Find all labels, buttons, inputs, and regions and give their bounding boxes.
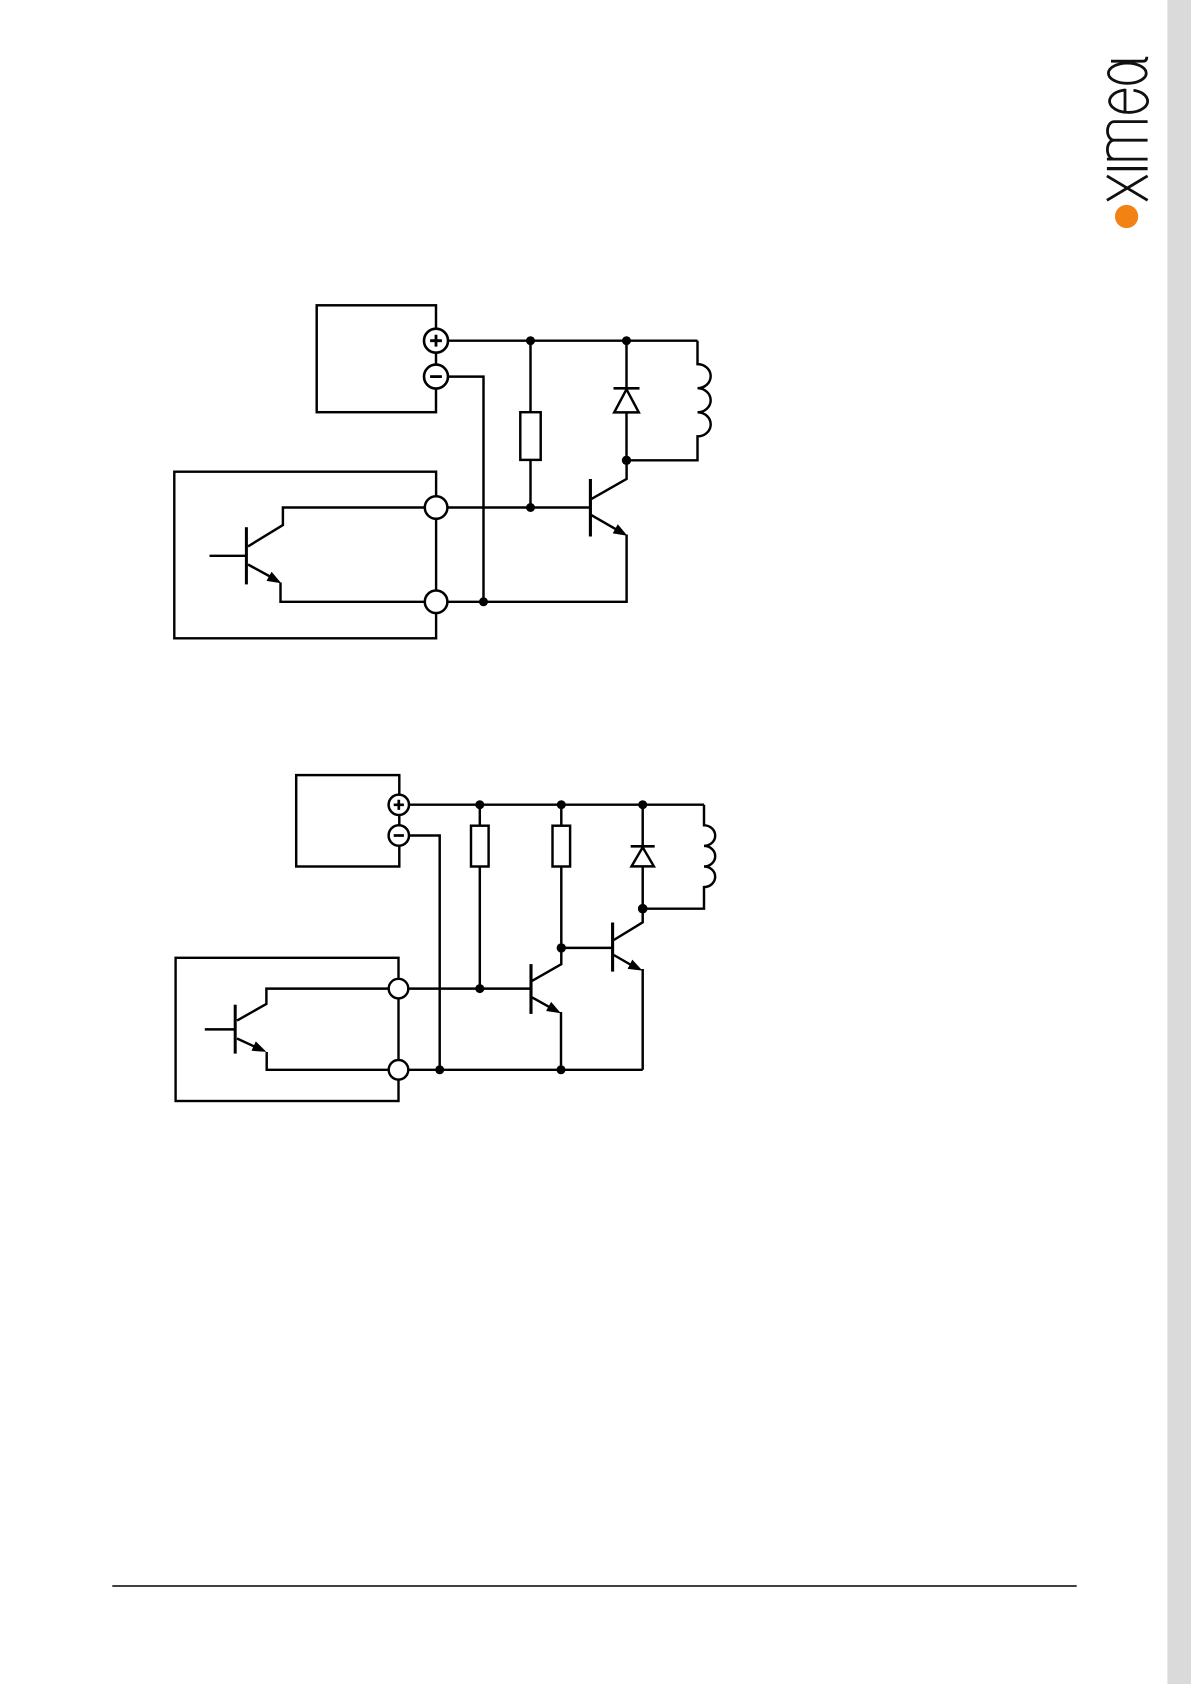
inductor L2 relay coil	[643, 805, 716, 909]
node D junction	[622, 456, 631, 465]
resistor R3	[553, 826, 571, 867]
footer rule	[112, 1585, 1076, 1587]
diode D1	[614, 341, 640, 461]
opto-isolator box U2	[176, 958, 399, 1101]
node L junction	[435, 1065, 444, 1074]
node J junction	[557, 943, 566, 952]
wire base rail Q2	[409, 987, 531, 989]
phototransistor U2	[205, 989, 388, 1070]
inductor L1 relay coil	[627, 341, 711, 461]
wire minus to ground rail	[409, 836, 440, 1070]
resistor R1	[520, 412, 540, 460]
transistor Q3	[613, 909, 643, 972]
node K junction	[638, 904, 648, 914]
wire top rail +V	[409, 803, 704, 805]
terminal - PS1	[424, 365, 448, 389]
wire emitter Q1 to ground rail	[447, 535, 626, 602]
wire to resistor R3	[560, 805, 562, 826]
wire minus to ground rail	[448, 377, 484, 602]
right margin bar	[1167, 0, 1191, 1684]
wire to resistor R2	[479, 805, 481, 826]
terminal + PS1	[424, 329, 448, 353]
terminal + PS2	[389, 795, 409, 815]
terminal pin 2 U2	[389, 1060, 409, 1080]
opto-isolator box U1	[174, 472, 436, 639]
ximea logo	[1107, 57, 1148, 228]
transistor Q2	[531, 948, 561, 1014]
terminal pin 2 U1	[425, 591, 448, 614]
terminal - PS2	[389, 825, 409, 845]
node A junction	[526, 336, 535, 345]
wire emitter Q2 to ground rail	[560, 1012, 562, 1070]
wire resistor R2 to base rail	[479, 867, 481, 989]
resistor R2	[471, 826, 489, 867]
wire to resistor R1	[529, 341, 531, 413]
wire base rail	[447, 506, 590, 508]
wire top rail +V	[448, 339, 698, 341]
node G junction	[475, 984, 484, 993]
terminal pin 1 U1	[425, 496, 448, 519]
node M junction	[557, 1065, 566, 1074]
node I junction	[638, 800, 647, 809]
node B junction	[526, 503, 535, 512]
node F junction	[475, 800, 484, 809]
wire node J to base Q3	[561, 947, 612, 949]
node C junction	[622, 336, 631, 345]
power supply box PS1	[317, 305, 436, 412]
terminal pin 1 U2	[389, 979, 409, 999]
diode D2	[631, 805, 655, 909]
wire resistor R3 to node J	[560, 867, 562, 948]
node H junction	[557, 800, 566, 809]
wire resistor R1 to base rail	[529, 460, 531, 508]
transistor Q1	[590, 460, 627, 536]
wire ground rail	[409, 1069, 643, 1071]
phototransistor U1	[210, 508, 426, 602]
node E junction	[479, 597, 488, 606]
power supply box PS2	[296, 775, 399, 866]
wire emitter Q3 to ground rail	[641, 969, 643, 1070]
